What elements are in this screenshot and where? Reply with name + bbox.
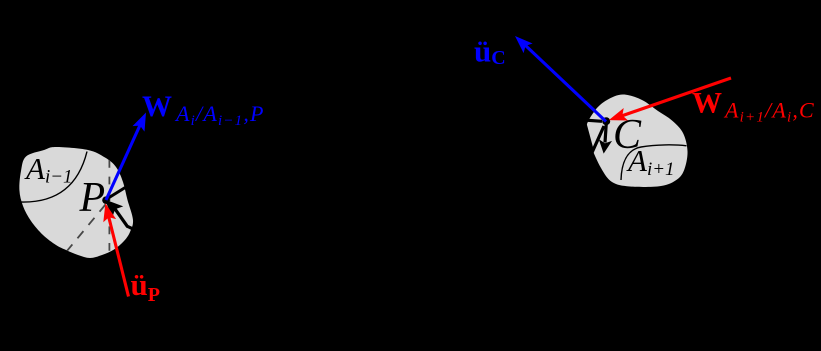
svg-text:Ai+1/Ai,C: Ai+1/Ai,C xyxy=(723,98,815,126)
svg-text:W: W xyxy=(142,90,172,123)
svg-text:P: P xyxy=(79,175,106,221)
svg-text:W: W xyxy=(692,87,722,120)
